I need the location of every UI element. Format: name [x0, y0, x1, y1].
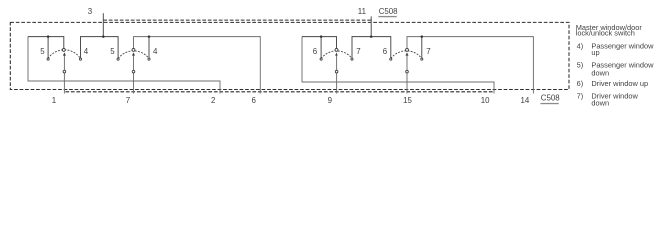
svg-text:2: 2 [211, 96, 215, 105]
svg-text:7: 7 [426, 47, 430, 56]
svg-text:4: 4 [153, 47, 158, 56]
svg-text:down: down [591, 98, 609, 107]
svg-text:4): 4) [577, 41, 584, 50]
svg-text:Passenger window: Passenger window [591, 41, 654, 50]
svg-text:4: 4 [84, 47, 89, 56]
svg-text:6): 6) [577, 79, 584, 88]
svg-text:7: 7 [356, 47, 360, 56]
svg-text:6: 6 [252, 96, 257, 105]
svg-text:up: up [591, 48, 599, 57]
svg-text:C508: C508 [379, 7, 398, 16]
svg-text:down: down [591, 69, 609, 78]
svg-text:9: 9 [328, 96, 333, 105]
svg-text:14: 14 [521, 96, 530, 105]
svg-text:10: 10 [481, 96, 490, 105]
svg-text:5): 5) [577, 61, 584, 70]
svg-text:6: 6 [383, 47, 388, 56]
svg-text:1: 1 [52, 96, 56, 105]
svg-text:11: 11 [358, 7, 366, 16]
svg-text:6: 6 [313, 47, 318, 56]
svg-text:C508: C508 [541, 94, 560, 103]
svg-text:7: 7 [126, 96, 130, 105]
svg-text:lock/unlock switch: lock/unlock switch [576, 28, 635, 37]
svg-text:5: 5 [110, 47, 115, 56]
svg-text:15: 15 [403, 96, 412, 105]
svg-text:7): 7) [577, 92, 584, 101]
svg-text:Driver window up: Driver window up [591, 79, 648, 88]
svg-text:5: 5 [40, 47, 45, 56]
svg-text:3: 3 [88, 7, 93, 16]
